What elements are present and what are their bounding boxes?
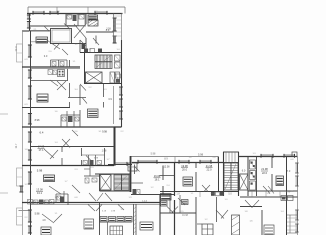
small rooms left of lower core: [84, 163, 100, 183]
room area texts upper wing: [35, 28, 113, 222]
stove with burners: [58, 70, 65, 77]
left facade wall x30.5 base: [30, 31, 32, 235]
svg-text:6.4: 6.4: [40, 131, 44, 135]
svg-text:1.13: 1.13: [142, 201, 147, 203]
entry box bottom middle: [202, 224, 213, 235]
wall x272: [271, 157, 273, 192]
left facade balcony protrusion lower: [17, 208, 23, 225]
room label plate 33.08 unit: [161, 194, 172, 201]
wall x256.5: [256, 157, 258, 197]
svg-text:1.3: 1.3: [54, 197, 58, 199]
kitchen fixtures lower-left unit: [28, 200, 55, 205]
wall x262 lower: [261, 210, 263, 235]
svg-text:22.0: 22.0: [206, 167, 212, 171]
interior wall y26: [30, 25, 78, 27]
room label plate first room: [36, 37, 48, 43]
svg-text:3.0: 3.0: [44, 54, 48, 58]
svg-text:2.2: 2.2: [24, 217, 28, 219]
hall wall y191.5 bottom wing: [160, 191, 239, 193]
svg-text:3.9: 3.9: [108, 97, 112, 101]
WC cluster lower-left unit: [56, 191, 68, 205]
svg-text:1.7: 1.7: [106, 159, 110, 161]
window on left facade wall y45-57: [28, 45, 32, 57]
stair tower porch at top of bottom wing: [224, 152, 239, 163]
left facade balcony protrusion upper: [17, 44, 23, 62]
svg-text:5.98: 5.98: [35, 213, 40, 216]
texts right rooms upper wing lower part: [94, 131, 108, 160]
door swings below kitchen: [57, 81, 66, 90]
balcony divider y210.5: [19, 210, 31, 212]
partition x62 lower-left unit hall: [61, 147, 63, 166]
hall plate right cluster: [182, 200, 189, 205]
wall x216.5 lower row: [216, 197, 218, 222]
door swings lower-left unit: [42, 185, 80, 223]
bathroom fixtures right unit: [281, 196, 293, 201]
wall x96 below label: [95, 36, 97, 44]
svg-text:2.0: 2.0: [48, 51, 52, 53]
scattered dimension texts: [24, 11, 294, 221]
room label plate lower-left unit: [44, 175, 55, 182]
svg-text:21.98: 21.98: [206, 164, 213, 168]
hatched double wall x133.5-136: [134, 204, 137, 235]
wall x134.5 junction: [134, 165, 136, 175]
hall plate left cluster: [161, 201, 168, 206]
window on far right wall y163-173: [295, 163, 299, 173]
wall x196 lower row: [195, 197, 197, 235]
step wall at upper-left corner: [22, 30, 30, 32]
bath row above wall y165.5 right side: [82, 148, 105, 166]
wall left of top unit room: [85, 14, 87, 53]
upper core left wall x84.5: [84, 53, 86, 84]
svg-text:1.3: 1.3: [252, 153, 256, 155]
entry fixtures row above core wall: [84, 49, 102, 53]
corridor wall x80 mid: [79, 85, 81, 127]
svg-text:1.1: 1.1: [54, 213, 58, 215]
wall x99.5 left of lower elevator: [99, 174, 101, 191]
svg-text:0.8: 0.8: [74, 197, 78, 199]
junction room walls: [160, 166, 175, 176]
ventilation shaft hatched box top: [88, 20, 98, 26]
room label plate bottom wing right unit: [276, 176, 284, 186]
svg-text:1.1: 1.1: [190, 193, 194, 195]
window on right wall y99-107: [119, 99, 123, 107]
svg-text:12.08: 12.08: [164, 166, 171, 169]
top exterior wall of upper wing: [27, 13, 123, 15]
corridor wall x80 upper: [79, 40, 81, 53]
hall partition x69.5: [69, 60, 71, 108]
kitchen fixtures junction room: [133, 189, 141, 195]
svg-text:12.3: 12.3: [14, 46, 18, 52]
porch box at far right top: [292, 152, 297, 157]
wall y165.5: [22, 165, 114, 167]
svg-text:1.7: 1.7: [64, 181, 68, 183]
svg-text:5.98: 5.98: [94, 158, 99, 160]
kitchen right wall x67.5: [67, 69, 69, 81]
svg-text:16.1: 16.1: [154, 178, 160, 182]
wall y107.5: [22, 107, 70, 109]
svg-text:20.0: 20.0: [182, 167, 188, 171]
notch wall where wings join: [114, 126, 122, 128]
svg-text:8.9: 8.9: [106, 28, 110, 32]
thin line under label plate y41.8: [31, 41, 48, 43]
room label plate bottom left cropped: [84, 219, 94, 229]
svg-text:16.98: 16.98: [182, 215, 188, 217]
corridor walls right section: [240, 191, 298, 197]
svg-text:1.9: 1.9: [128, 197, 132, 199]
window on left facade wall y113.5-124: [28, 114, 32, 125]
window on left facade wall y86-99: [28, 86, 32, 99]
wall x196 bottom wing upper row: [195, 163, 197, 192]
bottom wing elevator shaft: [240, 174, 249, 190]
svg-text:9.98: 9.98: [102, 131, 107, 134]
svg-text:1.6: 1.6: [249, 221, 253, 223]
door swing lower mid room: [178, 198, 185, 205]
bottom wing staircase walls: [224, 152, 239, 196]
svg-text:1.98: 1.98: [111, 211, 116, 213]
svg-text:3.4: 3.4: [74, 89, 78, 91]
svg-text:1.4: 1.4: [116, 49, 120, 51]
lower staircase flight: [114, 175, 129, 191]
door swing top rooms: [44, 24, 70, 32]
junction room partition y183: [131, 182, 143, 184]
interior wall y43.5: [50, 43, 86, 45]
svg-text:1.8: 1.8: [24, 149, 28, 151]
svg-text:7.3: 7.3: [287, 169, 291, 173]
bottom wing staircase flight: [224, 163, 238, 190]
ducts right of upper elevator: [110, 72, 120, 83]
svg-text:1.6: 1.6: [54, 111, 58, 113]
svg-text:17.08: 17.08: [38, 145, 45, 149]
window on left facade wall y226-233: [28, 226, 32, 233]
duct boxes right of bottom elevator: [250, 160, 256, 190]
window on far right wall y210-220: [295, 210, 299, 220]
svg-text:2.8: 2.8: [212, 157, 216, 159]
bottom wing top exterior wall: [132, 162, 223, 164]
dark shaft blob left of stairs: [82, 43, 86, 49]
window on far right wall y176-186: [295, 176, 299, 186]
svg-text:2.4: 2.4: [166, 185, 170, 187]
svg-text:0.9: 0.9: [24, 59, 28, 61]
WC cluster mid-left unit: [61, 111, 80, 127]
window on bottom wing top wall 3: [200, 160, 211, 164]
corridor door tick marks bottom wing: [200, 191, 280, 197]
thick wall x130 lower core: [130, 156, 132, 192]
core top wall y52.5: [80, 52, 122, 54]
svg-text:1.4: 1.4: [54, 142, 58, 144]
axis tick marks at far left: [0, 114, 8, 193]
window on left wall y186-192: [19, 186, 23, 192]
right exterior wall of upper wing: [121, 14, 123, 128]
kitchen fixtures below wall y67: [48, 70, 57, 75]
svg-text:5.0: 5.0: [228, 193, 232, 196]
window on upper-left wall segment y21.5-28: [27, 22, 31, 29]
wall x218.5: [218, 157, 220, 192]
window on right wall y87-95: [119, 87, 123, 95]
corridor tiny texts: [102, 209, 124, 213]
lower core bottom wall y191: [100, 190, 132, 192]
entrance box right of lower core: [128, 163, 137, 171]
wall y206.5 right section: [240, 206, 262, 208]
thick junction wall between wings: [114, 127, 116, 166]
svg-text:5.98: 5.98: [198, 153, 204, 157]
svg-text:4.8: 4.8: [42, 220, 46, 222]
corridor wall y30.5 across top-left unit: [30, 30, 51, 32]
room label plate bottom mid cropped: [140, 222, 153, 230]
wall y26 stub to x86: [77, 25, 86, 27]
room label plate mid-left unit: [37, 94, 48, 102]
lower core top wall y174: [95, 173, 131, 175]
bottom wing top exterior wall left part: [108, 164, 132, 166]
small room cluster below hall: [160, 195, 196, 213]
window on left facade wall y172-184: [28, 172, 32, 184]
left loggia front line: [21, 31, 23, 235]
wall below elevator y83.5: [84, 83, 122, 85]
text lower rooms: [182, 215, 253, 223]
svg-text:1.98: 1.98: [102, 150, 107, 153]
window W1 on top wall: [33, 11, 44, 15]
window on left facade wall y150-160: [28, 150, 32, 160]
window on bottom wing top wall 2: [179, 160, 189, 164]
wall y224 segment: [197, 223, 202, 225]
window on far right wall y224-232: [295, 224, 299, 232]
bottom wing top exterior wall right part: [239, 156, 298, 158]
svg-text:2.2: 2.2: [120, 131, 124, 133]
window W2 on top wall: [50, 11, 58, 15]
WC fixtures row at corridor x210-225: [211, 192, 224, 196]
row of four hall label plates: [100, 217, 132, 223]
svg-text:8.98: 8.98: [35, 119, 40, 122]
wall x248: [247, 157, 249, 197]
left facade wall solid segments between windows: [30, 31, 32, 235]
room label plate bottom far-left cropped: [41, 227, 51, 235]
svg-text:21.98: 21.98: [261, 167, 268, 171]
room area texts bottom wing: [142, 153, 291, 204]
upper staircase flight: [95, 55, 112, 69]
svg-text:1.2: 1.2: [24, 184, 28, 186]
room label plate bottom right cropped: [264, 225, 274, 235]
svg-text:1.1: 1.1: [72, 61, 76, 63]
svg-text:1.6: 1.6: [188, 157, 192, 159]
window on junction wall: [115, 162, 127, 166]
window W3 on top wall: [95, 11, 107, 15]
window on upper-left wall segment y15-19: [27, 15, 31, 19]
door swing junction room: [134, 166, 140, 172]
window on left facade wall y210-222: [28, 210, 32, 222]
room label plate top unit: [88, 15, 98, 20]
apartment summary plate bottom wing room1: [183, 177, 193, 186]
wall x163 junction rooms: [162, 166, 164, 195]
svg-text:1.2: 1.2: [204, 219, 208, 221]
wall y32 right room: [86, 31, 114, 33]
wall x286.5: [286, 157, 288, 236]
bedroom room box double walls: [51, 29, 72, 44]
svg-text:3.18: 3.18: [102, 211, 107, 213]
kitchen bottom wall y80.5: [31, 80, 69, 82]
wall stub y31.5 into bedroom box: [31, 31, 51, 33]
corridor wall y97.5 segment: [68, 97, 86, 99]
svg-text:2.7: 2.7: [88, 49, 92, 51]
svg-text:1.4: 1.4: [280, 211, 284, 213]
lobby mailbox grid bottom: [110, 226, 123, 235]
wall y146.5: [30, 146, 114, 148]
svg-text:22.0: 22.0: [262, 171, 268, 175]
lobby walls: [100, 203, 132, 236]
right exterior wall of bottom wing: [297, 157, 299, 236]
svg-text:1.3: 1.3: [103, 89, 107, 91]
loggia inner line right side mid: [113, 86, 115, 124]
svg-text:2.4: 2.4: [56, 11, 60, 13]
partition x66 top room: [65, 14, 67, 27]
porch interior lines: [226, 152, 235, 163]
svg-text:1.0: 1.0: [224, 199, 228, 201]
left facade balcony protrusion middle: [17, 168, 23, 186]
svg-text:16.08: 16.08: [154, 174, 161, 178]
loggia hatch ticks bottom right: [287, 218, 298, 230]
door swing right section corridor second leaf: [252, 200, 259, 208]
door swings bottom wing: [202, 185, 274, 219]
WC fixtures right of upper elevator room: [116, 74, 121, 83]
loggia window strip bottom right: [287, 215, 298, 233]
wall x160 lower: [159, 195, 161, 235]
svg-text:2.2: 2.2: [88, 87, 92, 89]
partition x103.5 below core: [103, 84, 105, 108]
svg-text:2.9: 2.9: [90, 167, 94, 169]
kitchen wall parallel y204.3: [31, 203, 161, 205]
svg-text:2.3: 2.3: [74, 169, 78, 171]
loggia inner line right top: [113, 14, 115, 41]
partition x78 top room: [77, 14, 79, 27]
svg-text:0.9: 0.9: [24, 104, 28, 106]
svg-text:1.8: 1.8: [244, 211, 248, 213]
window on right wall y111-119: [119, 111, 123, 119]
svg-text:1.2: 1.2: [150, 187, 154, 189]
svg-text:17.1: 17.1: [38, 148, 44, 152]
lower elevator shaft: [100, 175, 111, 191]
upper elevator shaft: [86, 72, 103, 83]
balcony railing along bottom wing top facade: [131, 157, 218, 164]
kitchen wall y67: [22, 66, 80, 68]
svg-text:13.1: 13.1: [37, 191, 43, 195]
window bars on right loggia wall x114 y18-31: [113, 18, 117, 31]
door swings mid corridor: [50, 80, 87, 148]
kitchen wall y202.5 lower unit: [22, 202, 160, 204]
window on left facade wall y70-78: [28, 70, 32, 78]
loggia hatch ticks top right of upper wing: [114, 16, 122, 36]
svg-text:8.9: 8.9: [164, 158, 168, 161]
svg-text:6.0: 6.0: [242, 169, 246, 173]
corridor door swings below lower core: [89, 193, 112, 201]
bathroom fixtures top right unit: [66, 14, 85, 25]
svg-text:1.2: 1.2: [74, 44, 78, 46]
hatched balcony band bottom: [232, 215, 240, 235]
svg-text:19.98: 19.98: [181, 164, 188, 168]
upper-left exterior wall segment: [29, 14, 31, 32]
room label plate right mid unit: [88, 109, 99, 118]
svg-text:5.98: 5.98: [151, 153, 156, 156]
window on left facade wall y132-142: [28, 132, 32, 142]
junction corridor wall y194.5: [131, 194, 175, 196]
svg-text:13.08: 13.08: [36, 188, 43, 192]
wall x174.5 bottom wing: [174, 163, 176, 236]
corridor door swings below y202.5: [88, 205, 124, 212]
svg-text:0.8: 0.8: [290, 159, 294, 161]
main cross wall y127: [22, 126, 122, 128]
kitchen wall parallel line y68.7: [31, 68, 81, 70]
window right section 1: [261, 154, 273, 158]
svg-text:5.98: 5.98: [37, 169, 43, 173]
door swings hall lower-left unit: [44, 149, 58, 159]
balcony railing line along top facade: [28, 7, 125, 14]
window on bottom wing top wall 1: [138, 160, 157, 164]
door swings upper corridor area: [46, 24, 99, 55]
svg-text:2.6: 2.6: [74, 131, 78, 133]
svg-text:11.7: 11.7: [14, 143, 18, 148]
window right section 2: [284, 154, 295, 158]
WC partition cluster top unit: [51, 60, 68, 67]
window bars on right loggia wall x114 y36-43: [113, 36, 117, 43]
shaft boxes right of upper stairs: [115, 55, 121, 68]
